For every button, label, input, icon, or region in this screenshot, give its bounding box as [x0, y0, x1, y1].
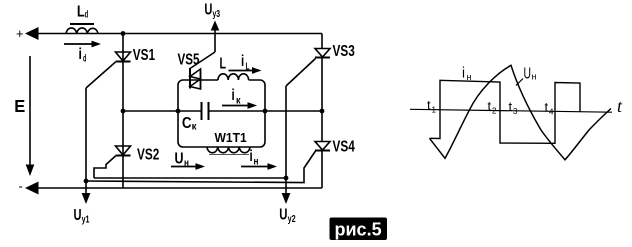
svg-text:2: 2 [492, 107, 497, 116]
svg-text:t: t [427, 98, 431, 113]
svg-text:L: L [246, 62, 250, 73]
svg-text:U: U [204, 1, 212, 18]
svg-text:U: U [524, 66, 532, 83]
svg-text:t: t [617, 96, 623, 116]
svg-text:U: U [279, 207, 287, 224]
svg-text:н: н [184, 158, 189, 169]
svg-text:C: C [182, 115, 192, 132]
svg-text:+: + [16, 26, 24, 41]
svg-text:н: н [254, 157, 259, 168]
svg-text:VS2: VS2 [137, 147, 159, 164]
svg-text:VS1: VS1 [133, 47, 155, 64]
svg-text:i: i [232, 87, 235, 104]
svg-text:t: t [509, 99, 513, 114]
svg-text:L: L [220, 56, 227, 73]
svg-text:VS4: VS4 [333, 139, 355, 156]
svg-text:рис.5: рис.5 [335, 220, 382, 240]
svg-text:у3: у3 [213, 9, 221, 20]
svg-text:t: t [488, 99, 492, 114]
svg-text:н: н [532, 72, 537, 83]
svg-text:t: t [545, 99, 549, 114]
svg-text:у2: у2 [288, 214, 296, 225]
svg-text:к: к [192, 122, 198, 133]
svg-text:у1: у1 [82, 215, 90, 226]
svg-text:E: E [14, 96, 25, 116]
svg-text:d: d [83, 54, 86, 65]
svg-text:н: н [467, 72, 472, 83]
svg-text:VS5: VS5 [178, 52, 200, 69]
svg-text:4: 4 [549, 107, 554, 116]
svg-text:i: i [241, 53, 244, 70]
svg-text:i: i [250, 148, 253, 165]
svg-text:3: 3 [513, 107, 518, 116]
svg-text:-: - [19, 179, 23, 194]
svg-text:d: d [85, 10, 88, 21]
svg-text:1: 1 [432, 106, 437, 115]
svg-text:U: U [175, 151, 184, 168]
svg-text:U: U [74, 207, 82, 224]
svg-text:VS3: VS3 [333, 43, 355, 60]
svg-text:i: i [79, 46, 82, 63]
svg-text:L: L [77, 3, 85, 20]
svg-text:W1T1: W1T1 [215, 130, 248, 145]
svg-text:i: i [462, 65, 465, 82]
